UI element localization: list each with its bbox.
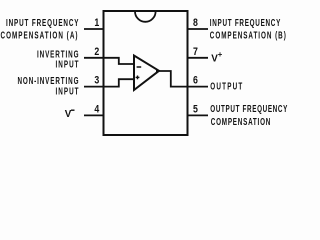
label pin2 INPUT bbox=[55, 58, 79, 70]
label pin2 INVERTING bbox=[37, 48, 79, 60]
pin 4 stub bbox=[84, 114, 104, 116]
pin 8 number bbox=[193, 17, 198, 29]
pin 8 stub bbox=[188, 28, 209, 30]
svg-text:COMPENSATION: COMPENSATION bbox=[211, 115, 271, 127]
wire op-amp output to pin 6 bbox=[156, 71, 188, 87]
svg-text:5: 5 bbox=[193, 104, 198, 116]
label pin8 COMPENSATION (B) bbox=[210, 29, 286, 41]
wire pin3 to non-inverting input bbox=[103, 79, 135, 86]
pin 7 stub bbox=[188, 57, 209, 59]
svg-text:INPUT: INPUT bbox=[55, 58, 79, 70]
IC package U1 outline bbox=[104, 11, 188, 135]
label pin5 COMPENSATION bbox=[211, 115, 271, 127]
label pin3 NON-INVERTING bbox=[17, 74, 78, 86]
pin 1 stub bbox=[84, 28, 104, 30]
pin 4 number bbox=[94, 104, 99, 116]
svg-text:2: 2 bbox=[94, 46, 99, 58]
svg-text:1: 1 bbox=[94, 17, 99, 29]
svg-text:INPUT FREQUENCY: INPUT FREQUENCY bbox=[6, 16, 79, 28]
pin 2 number bbox=[94, 46, 99, 58]
pin 1 number bbox=[94, 17, 99, 29]
svg-text:3: 3 bbox=[94, 75, 99, 87]
svg-text:INPUT: INPUT bbox=[55, 85, 79, 97]
pin 3 number bbox=[94, 75, 99, 87]
label pin4 V- bbox=[65, 109, 72, 120]
pin 6 stub bbox=[188, 86, 209, 88]
svg-text:4: 4 bbox=[94, 104, 99, 116]
op-amp non-inverting input plus sign bbox=[136, 76, 140, 78]
op-amp inverting input minus sign bbox=[137, 66, 142, 68]
svg-text:INPUT FREQUENCY: INPUT FREQUENCY bbox=[210, 16, 281, 28]
svg-text:COMPENSATION (B): COMPENSATION (B) bbox=[210, 29, 286, 41]
label pin1 INPUT FREQUENCY bbox=[6, 16, 79, 28]
wire pin2 to inverting input bbox=[103, 58, 135, 64]
svg-text:8: 8 bbox=[193, 17, 198, 29]
label pin1 COMPENSATION (A) bbox=[0, 29, 77, 41]
op-amp A1 triangle bbox=[134, 56, 159, 91]
label pin6 OUTPUT bbox=[210, 80, 243, 92]
svg-text:OUTPUT FREQUENCY: OUTPUT FREQUENCY bbox=[210, 102, 287, 114]
pin 3 stub bbox=[84, 86, 104, 88]
pin 2 stub bbox=[84, 57, 104, 59]
svg-text:7: 7 bbox=[193, 46, 198, 58]
label pin8 INPUT FREQUENCY bbox=[210, 16, 281, 28]
label pin3 INPUT bbox=[55, 85, 79, 97]
pin 7 number bbox=[193, 46, 198, 58]
pin 6 number bbox=[193, 75, 198, 87]
svg-text:6: 6 bbox=[193, 75, 198, 87]
pin 5 number bbox=[193, 104, 198, 116]
pin 5 stub bbox=[188, 114, 209, 116]
label pin5 OUTPUT FREQUENCY bbox=[210, 102, 287, 114]
svg-text:+: + bbox=[218, 50, 223, 59]
package notch bbox=[135, 12, 156, 22]
svg-text:V: V bbox=[65, 109, 72, 120]
label pin7 V+ bbox=[211, 53, 218, 64]
